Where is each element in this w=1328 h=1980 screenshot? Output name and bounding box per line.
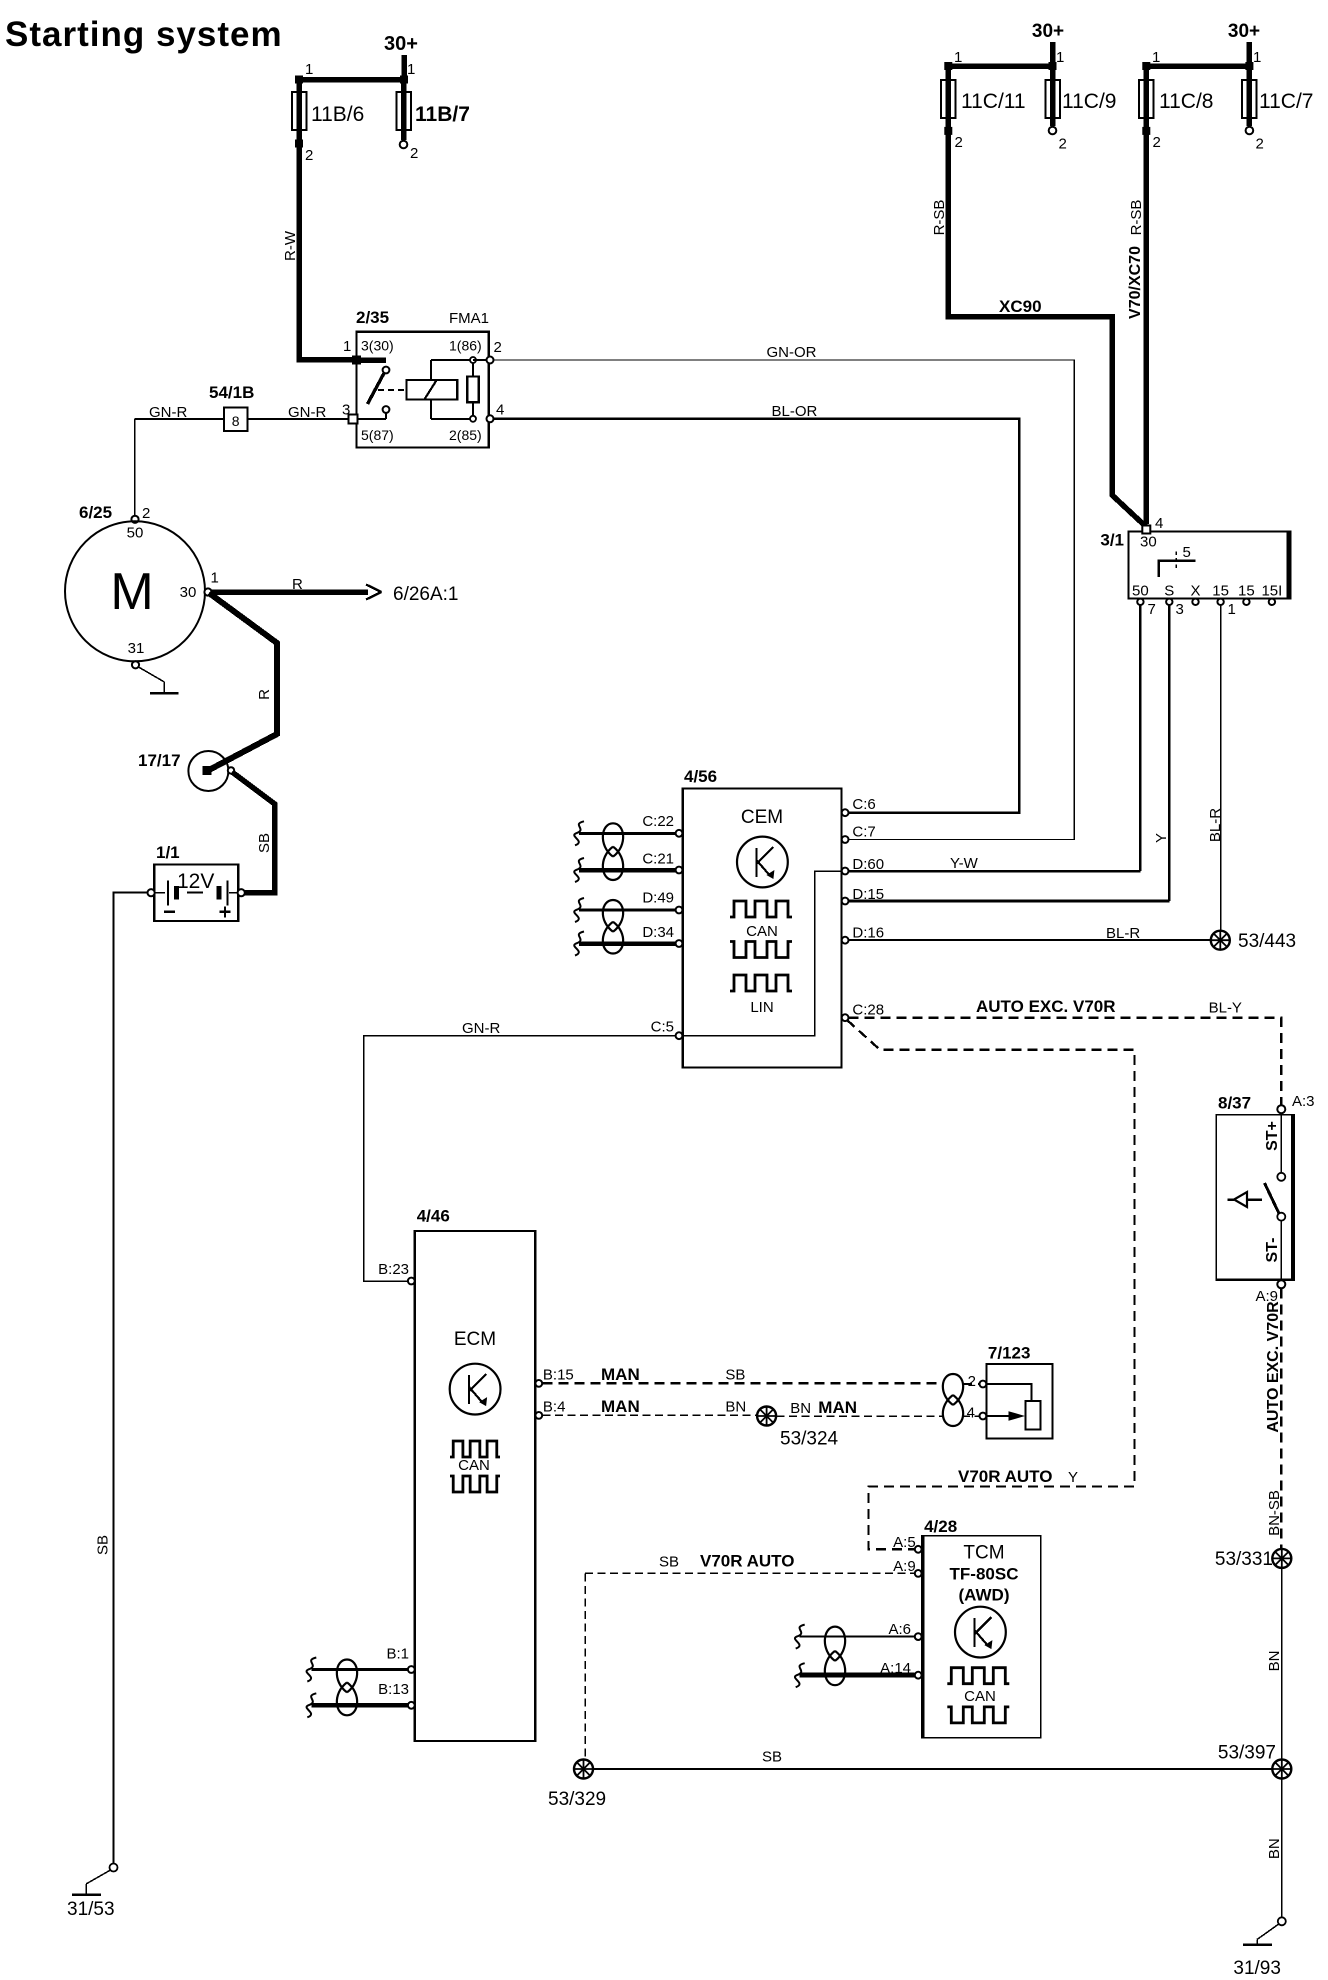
svg-text:BL-Y: BL-Y	[1209, 1000, 1242, 1017]
svg-text:2: 2	[410, 145, 418, 162]
wire BL-OR relay pin4 to CEM C:6	[494, 419, 1020, 813]
svg-text:BN: BN	[725, 1399, 746, 1416]
twisted pair B:1/B:13	[337, 1660, 357, 1693]
wire R-SB XC90 from 11C/11 to ignition switch	[948, 131, 1146, 527]
relay 2/35 pin 5(87) contact	[383, 406, 390, 413]
CEM LIN symbol	[730, 975, 792, 991]
wire BN splice 53/331 to splice 53/397	[1281, 1568, 1283, 1759]
wire 30+ feed to fuses 11B	[401, 55, 407, 80]
svg-text:2: 2	[1256, 136, 1264, 153]
CEM pin D:34	[579, 941, 676, 946]
svg-text:1: 1	[1152, 49, 1160, 66]
TCM pin A:6	[800, 1636, 915, 1638]
svg-text:54/1B: 54/1B	[209, 383, 254, 402]
svg-text:AUTO EXC. V70R: AUTO EXC. V70R	[1265, 1301, 1282, 1433]
svg-text:BN-SB: BN-SB	[1266, 1490, 1283, 1536]
relay 2/35 pin 3	[349, 415, 358, 424]
wire SB down to splice 53/329	[584, 1573, 586, 1757]
inhibitor 7/123 internals	[986, 1384, 1031, 1401]
break symbol C:21 wire	[574, 858, 584, 882]
svg-text:2: 2	[142, 505, 150, 522]
CEM pin D:60	[842, 868, 849, 875]
svg-text:7/123: 7/123	[988, 1344, 1031, 1363]
start switch 8/37 pin A:9	[1277, 1280, 1285, 1288]
svg-text:C:21: C:21	[642, 851, 674, 868]
wire BN splice 53/397 to ground 31/93	[1281, 1779, 1283, 1918]
svg-text:X: X	[1190, 583, 1200, 600]
relay 2/35 switch contact	[357, 357, 387, 363]
svg-text:53/331: 53/331	[1215, 1549, 1273, 1570]
svg-text:C:6: C:6	[852, 796, 875, 813]
svg-text:50: 50	[1132, 583, 1149, 600]
wire GN-R down to starter motor pin 2	[134, 419, 136, 516]
splice 53/329	[574, 1760, 593, 1779]
fuse 11C/8	[1144, 66, 1150, 131]
svg-text:15: 15	[1212, 583, 1229, 600]
break symbol D:34 wire	[574, 932, 584, 956]
svg-text:SB: SB	[762, 1749, 782, 1766]
svg-text:B:23: B:23	[378, 1261, 409, 1278]
svg-text:8/37: 8/37	[1218, 1094, 1251, 1113]
svg-text:AUTO EXC. V70R: AUTO EXC. V70R	[976, 997, 1116, 1016]
wire BN MAN from ECM B:4 to splice 53/324	[542, 1414, 756, 1416]
fuse 11B/7	[401, 80, 407, 141]
svg-text:11C/8: 11C/8	[1159, 90, 1213, 113]
svg-text:TCM: TCM	[963, 1542, 1004, 1563]
svg-text:Y-W: Y-W	[950, 855, 979, 872]
relay 2/35 pin 1	[352, 356, 361, 365]
svg-text:BN: BN	[790, 1400, 811, 1417]
svg-text:30: 30	[180, 584, 197, 601]
CEM pin D:49	[579, 909, 676, 912]
svg-text:BL-OR: BL-OR	[772, 403, 818, 420]
wire GN-OR relay pin2 to CEM C:7	[494, 360, 1075, 840]
svg-text:M: M	[110, 563, 153, 621]
svg-text:GN-OR: GN-OR	[767, 344, 817, 361]
svg-text:7: 7	[1148, 601, 1156, 618]
CEM pin D:15	[842, 898, 849, 905]
wire bus 11C/8 to 11C/7	[1144, 63, 1250, 69]
inhibitor 7/123 pin 2	[980, 1381, 987, 1388]
break symbol B:1 wire	[307, 1658, 317, 1682]
inhibitor 7/123 pin 4	[980, 1413, 987, 1420]
svg-text:LIN: LIN	[750, 999, 773, 1016]
CEM CAN symbol	[730, 901, 792, 917]
wire GN-R to relay pin 3	[248, 418, 349, 420]
svg-text:17/17: 17/17	[138, 751, 181, 770]
svg-text:BL-R: BL-R	[1207, 808, 1224, 842]
relay 2/35 pin 2	[473, 359, 489, 361]
svg-text:B:15: B:15	[543, 1367, 574, 1384]
svg-text:R-SB: R-SB	[1128, 200, 1145, 236]
svg-text:30+: 30+	[384, 33, 418, 55]
CEM internal net D:60 to C:5	[683, 871, 842, 1036]
ignition switch 3/1 key symbol	[1159, 561, 1196, 577]
start switch 8/37 actuator triangle	[1228, 1198, 1235, 1201]
svg-text:50: 50	[127, 525, 144, 542]
ECM CAN symbol	[450, 1441, 500, 1457]
wire V70R AUTO from CEM C:28 to TCM A:5	[847, 1020, 1135, 1549]
start switch 8/37 pin A:3	[1277, 1105, 1285, 1113]
starter motor 6/25 pin 1	[204, 588, 211, 595]
ECM pin B:15	[535, 1380, 542, 1387]
break symbol D:49 wire	[574, 898, 584, 922]
svg-text:BL-R: BL-R	[1106, 925, 1140, 942]
svg-text:A:14: A:14	[880, 1660, 911, 1677]
svg-text:B:1: B:1	[386, 1645, 409, 1662]
wire bus 11C/11 to 11C/9	[946, 63, 1053, 69]
wire R-W from 11B/6 to relay 2/35 pin1	[299, 144, 353, 360]
svg-text:30+: 30+	[1032, 21, 1064, 42]
svg-text:FMA1: FMA1	[449, 310, 489, 327]
wire SB splice 53/329 to splice 53/397	[594, 1768, 1272, 1770]
starter motor 6/25 pin 31	[132, 661, 139, 668]
svg-text:CAN: CAN	[964, 1688, 996, 1705]
svg-text:2(85): 2(85)	[449, 427, 482, 443]
svg-text:1: 1	[954, 49, 962, 66]
svg-text:A:9: A:9	[893, 1558, 916, 1575]
wire SB battery to ground 31/53	[114, 893, 148, 1864]
svg-text:D:16: D:16	[852, 924, 884, 941]
svg-text:6/26A:1: 6/26A:1	[393, 584, 459, 605]
svg-text:D:15: D:15	[852, 886, 884, 903]
ground 31/93	[1278, 1917, 1286, 1925]
wire 30+ feed 11C/7	[1247, 42, 1253, 66]
svg-text:R: R	[256, 689, 273, 700]
svg-text:5: 5	[1183, 544, 1191, 561]
svg-text:53/443: 53/443	[1238, 931, 1296, 952]
svg-text:2: 2	[955, 134, 963, 151]
svg-text:A:3: A:3	[1292, 1093, 1315, 1110]
svg-text:V70R AUTO: V70R AUTO	[958, 1467, 1052, 1486]
svg-text:53/397: 53/397	[1218, 1743, 1276, 1764]
fuse 11B/6	[296, 80, 302, 144]
svg-text:4: 4	[1155, 515, 1163, 532]
svg-text:(AWD): (AWD)	[959, 1585, 1010, 1604]
CEM control unit symbol	[737, 837, 788, 888]
svg-text:30+: 30+	[1228, 21, 1260, 42]
svg-text:MAN: MAN	[601, 1397, 640, 1416]
CEM pin C:6	[842, 809, 849, 816]
fuse 11C/7	[1247, 66, 1253, 126]
svg-text:ST-: ST-	[1264, 1238, 1281, 1263]
svg-text:5(87): 5(87)	[361, 427, 394, 443]
break symbol B:13 wire	[307, 1693, 317, 1717]
splice 53/443	[1211, 931, 1230, 950]
svg-text:B:4: B:4	[543, 1399, 566, 1416]
svg-text:31: 31	[128, 640, 145, 657]
CEM pin C:5	[676, 1032, 683, 1039]
TCM pin A:5	[915, 1546, 922, 1553]
CEM pin C:22	[579, 832, 676, 835]
svg-text:A:5: A:5	[893, 1534, 916, 1551]
svg-text:C:7: C:7	[852, 824, 875, 841]
relay 2/35 pin 4	[487, 415, 494, 422]
wire from 3/1 pin 50 down	[1139, 605, 1142, 871]
svg-text:BN: BN	[1266, 1651, 1283, 1672]
ECM pin B:4	[535, 1412, 542, 1419]
svg-text:8: 8	[232, 413, 240, 429]
wire R-SB V70/XC70 from 11C/8 to ignition switch	[1144, 131, 1150, 524]
svg-text:4/46: 4/46	[417, 1207, 450, 1226]
starter motor 6/25 body	[65, 521, 205, 661]
svg-text:SB: SB	[95, 1535, 112, 1555]
svg-text:15I: 15I	[1261, 583, 1282, 600]
svg-text:4: 4	[496, 402, 504, 419]
svg-text:53/329: 53/329	[548, 1789, 606, 1810]
wire R from motor pin 1 down to 17/17	[208, 593, 277, 771]
svg-text:6/25: 6/25	[79, 503, 112, 522]
TCM CAN symbol	[947, 1668, 1009, 1684]
starter motor 6/25 pin 2	[131, 516, 138, 523]
ground at starter motor	[139, 667, 165, 682]
svg-text:31/53: 31/53	[67, 1899, 115, 1920]
svg-text:4: 4	[967, 1405, 975, 1422]
svg-text:BN: BN	[1266, 1838, 1283, 1859]
svg-text:2: 2	[1059, 136, 1067, 153]
svg-text:S: S	[1164, 583, 1174, 600]
wire GN-R left segment	[135, 418, 224, 420]
svg-text:2: 2	[1153, 134, 1161, 151]
ground 31/53	[110, 1864, 118, 1872]
svg-text:C:22: C:22	[642, 813, 674, 830]
svg-text:3(30): 3(30)	[361, 338, 394, 354]
svg-text:2: 2	[968, 1373, 976, 1390]
relay 2/35 resistor	[467, 377, 478, 403]
CEM pin D:16	[842, 937, 849, 944]
break symbol A:14 wire	[795, 1663, 805, 1687]
svg-text:GN-R: GN-R	[288, 404, 326, 421]
svg-text:11C/11: 11C/11	[961, 90, 1026, 113]
twisted pair D:49/D:34	[603, 900, 623, 932]
TCM pin A:9	[915, 1570, 922, 1577]
svg-text:V70/XC70: V70/XC70	[1127, 246, 1144, 319]
ignition switch 3/1 box	[1129, 532, 1291, 599]
svg-text:Y: Y	[1153, 833, 1170, 843]
ECM pin B:13	[311, 1703, 408, 1708]
TCM pin A:14	[800, 1673, 915, 1678]
twisted pair C:22/C:21	[603, 823, 623, 856]
svg-text:1: 1	[407, 61, 415, 78]
wire bus pin1 11B/6 to 11B/7	[296, 77, 404, 83]
svg-text:ECM: ECM	[454, 1329, 496, 1350]
wire 30+ feed 11C/9	[1050, 42, 1056, 66]
svg-text:1: 1	[343, 338, 351, 355]
svg-text:1: 1	[1228, 601, 1236, 618]
svg-text:Y: Y	[1068, 1469, 1078, 1486]
svg-text:XC90: XC90	[999, 297, 1042, 316]
svg-text:53/324: 53/324	[780, 1429, 839, 1450]
svg-text:GN-R: GN-R	[462, 1020, 500, 1037]
ECM pin B:23	[408, 1278, 415, 1285]
svg-text:12V: 12V	[177, 870, 214, 893]
svg-text:R: R	[292, 576, 303, 593]
svg-text:MAN: MAN	[818, 1398, 857, 1417]
svg-text:Starting system: Starting system	[5, 15, 283, 54]
svg-text:31/93: 31/93	[1233, 1958, 1281, 1979]
svg-text:CAN: CAN	[746, 923, 778, 940]
svg-text:A:6: A:6	[888, 1621, 911, 1638]
svg-text:2: 2	[305, 147, 313, 164]
svg-text:4/56: 4/56	[684, 767, 717, 786]
svg-text:MAN: MAN	[601, 1365, 640, 1384]
ECM control unit symbol	[450, 1364, 501, 1415]
CEM pin C:7	[842, 836, 849, 843]
svg-text:2: 2	[494, 339, 502, 356]
svg-text:B:13: B:13	[378, 1681, 409, 1698]
svg-text:C:28: C:28	[852, 1002, 884, 1019]
wire BN-SB AUTO EXC. V70R from 8/37 A:9 to splice 53/331	[1280, 1289, 1282, 1550]
wire SB V70R AUTO to TCM A:9	[585, 1572, 914, 1574]
svg-text:ST+: ST+	[1264, 1121, 1281, 1151]
fuse 11C/9	[1050, 66, 1056, 126]
svg-text:CAN: CAN	[458, 1457, 490, 1474]
CEM pin C:28	[842, 1014, 849, 1021]
svg-text:SB: SB	[659, 1554, 679, 1571]
wire Y from 3/1 pin S to CEM D:15	[1168, 605, 1171, 901]
wire SB MAN from ECM B:15 to 7/123 pin 2	[542, 1382, 944, 1384]
wire R to 6/26A:1 arrow	[212, 589, 369, 595]
svg-text:D:60: D:60	[852, 856, 884, 873]
svg-text:15: 15	[1238, 583, 1255, 600]
ignition switch 3/1 pin 4	[1142, 526, 1150, 534]
svg-text:C:5: C:5	[651, 1019, 674, 1036]
svg-text:1: 1	[1056, 49, 1064, 66]
svg-text:D:49: D:49	[642, 890, 674, 907]
svg-text:30: 30	[1140, 534, 1157, 551]
fuse 11C/11	[946, 66, 952, 131]
wire BL-Y AUTO EXC. V70R from CEM C:28 to 8/37 A:3	[849, 1018, 1282, 1105]
start switch 8/37 contacts	[1280, 1115, 1282, 1173]
splice 53/324	[757, 1407, 776, 1426]
wire SB from 17/17 to battery plus	[232, 772, 275, 893]
wire GN-R from CEM C:5 to ECM B:23	[364, 1036, 676, 1281]
splice 53/331	[1272, 1549, 1291, 1568]
svg-text:CEM: CEM	[741, 807, 783, 828]
svg-text:SB: SB	[725, 1367, 745, 1384]
svg-text:R-W: R-W	[282, 230, 299, 261]
svg-text:2/35: 2/35	[356, 308, 389, 327]
svg-text:V70R AUTO: V70R AUTO	[700, 1552, 794, 1571]
wire BN MAN from splice 53/324 to 7/123 pin 4	[777, 1415, 944, 1417]
svg-text:D:34: D:34	[642, 924, 674, 941]
svg-text:4/28: 4/28	[924, 1517, 957, 1536]
svg-text:11B/6: 11B/6	[311, 103, 364, 126]
break symbol A:6 wire	[795, 1625, 805, 1649]
svg-text:11B/7: 11B/7	[415, 103, 470, 126]
svg-text:11C/9: 11C/9	[1062, 90, 1116, 113]
svg-text:3: 3	[1176, 601, 1184, 618]
wire BL-R from CEM D:16 to splice 53/443	[845, 939, 1211, 941]
svg-text:SB: SB	[256, 833, 273, 853]
splice 53/397	[1272, 1760, 1291, 1779]
svg-text:1: 1	[211, 570, 219, 587]
wire Y-W from CEM D:60 to 3/1 pin 50	[845, 870, 1140, 873]
svg-text:1/1: 1/1	[156, 843, 180, 862]
twisted pair A:6/A:14	[825, 1627, 845, 1661]
svg-text:3/1: 3/1	[1100, 531, 1124, 550]
TCM control unit symbol	[955, 1607, 1006, 1658]
relay 2/35 box	[357, 332, 489, 448]
relay 2/35 coil	[407, 380, 458, 399]
CEM pin C:21	[579, 868, 676, 873]
break symbol C:22 wire	[574, 821, 584, 845]
svg-text:TF-80SC: TF-80SC	[950, 1564, 1019, 1583]
twisted pair at 7/123	[943, 1374, 963, 1405]
svg-text:R-SB: R-SB	[931, 200, 948, 236]
relay 2/35 coil link dashed	[378, 389, 404, 391]
svg-text:1: 1	[305, 61, 313, 78]
wire BL-R from 3/1 pin 15 to splice 53/443	[1220, 605, 1222, 931]
svg-text:1: 1	[1253, 49, 1261, 66]
svg-text:GN-R: GN-R	[149, 404, 187, 421]
svg-text:3: 3	[342, 402, 350, 419]
ECM pin B:1	[311, 1668, 408, 1671]
svg-text:1(86): 1(86)	[449, 338, 482, 354]
svg-text:11C/7: 11C/7	[1259, 90, 1313, 113]
